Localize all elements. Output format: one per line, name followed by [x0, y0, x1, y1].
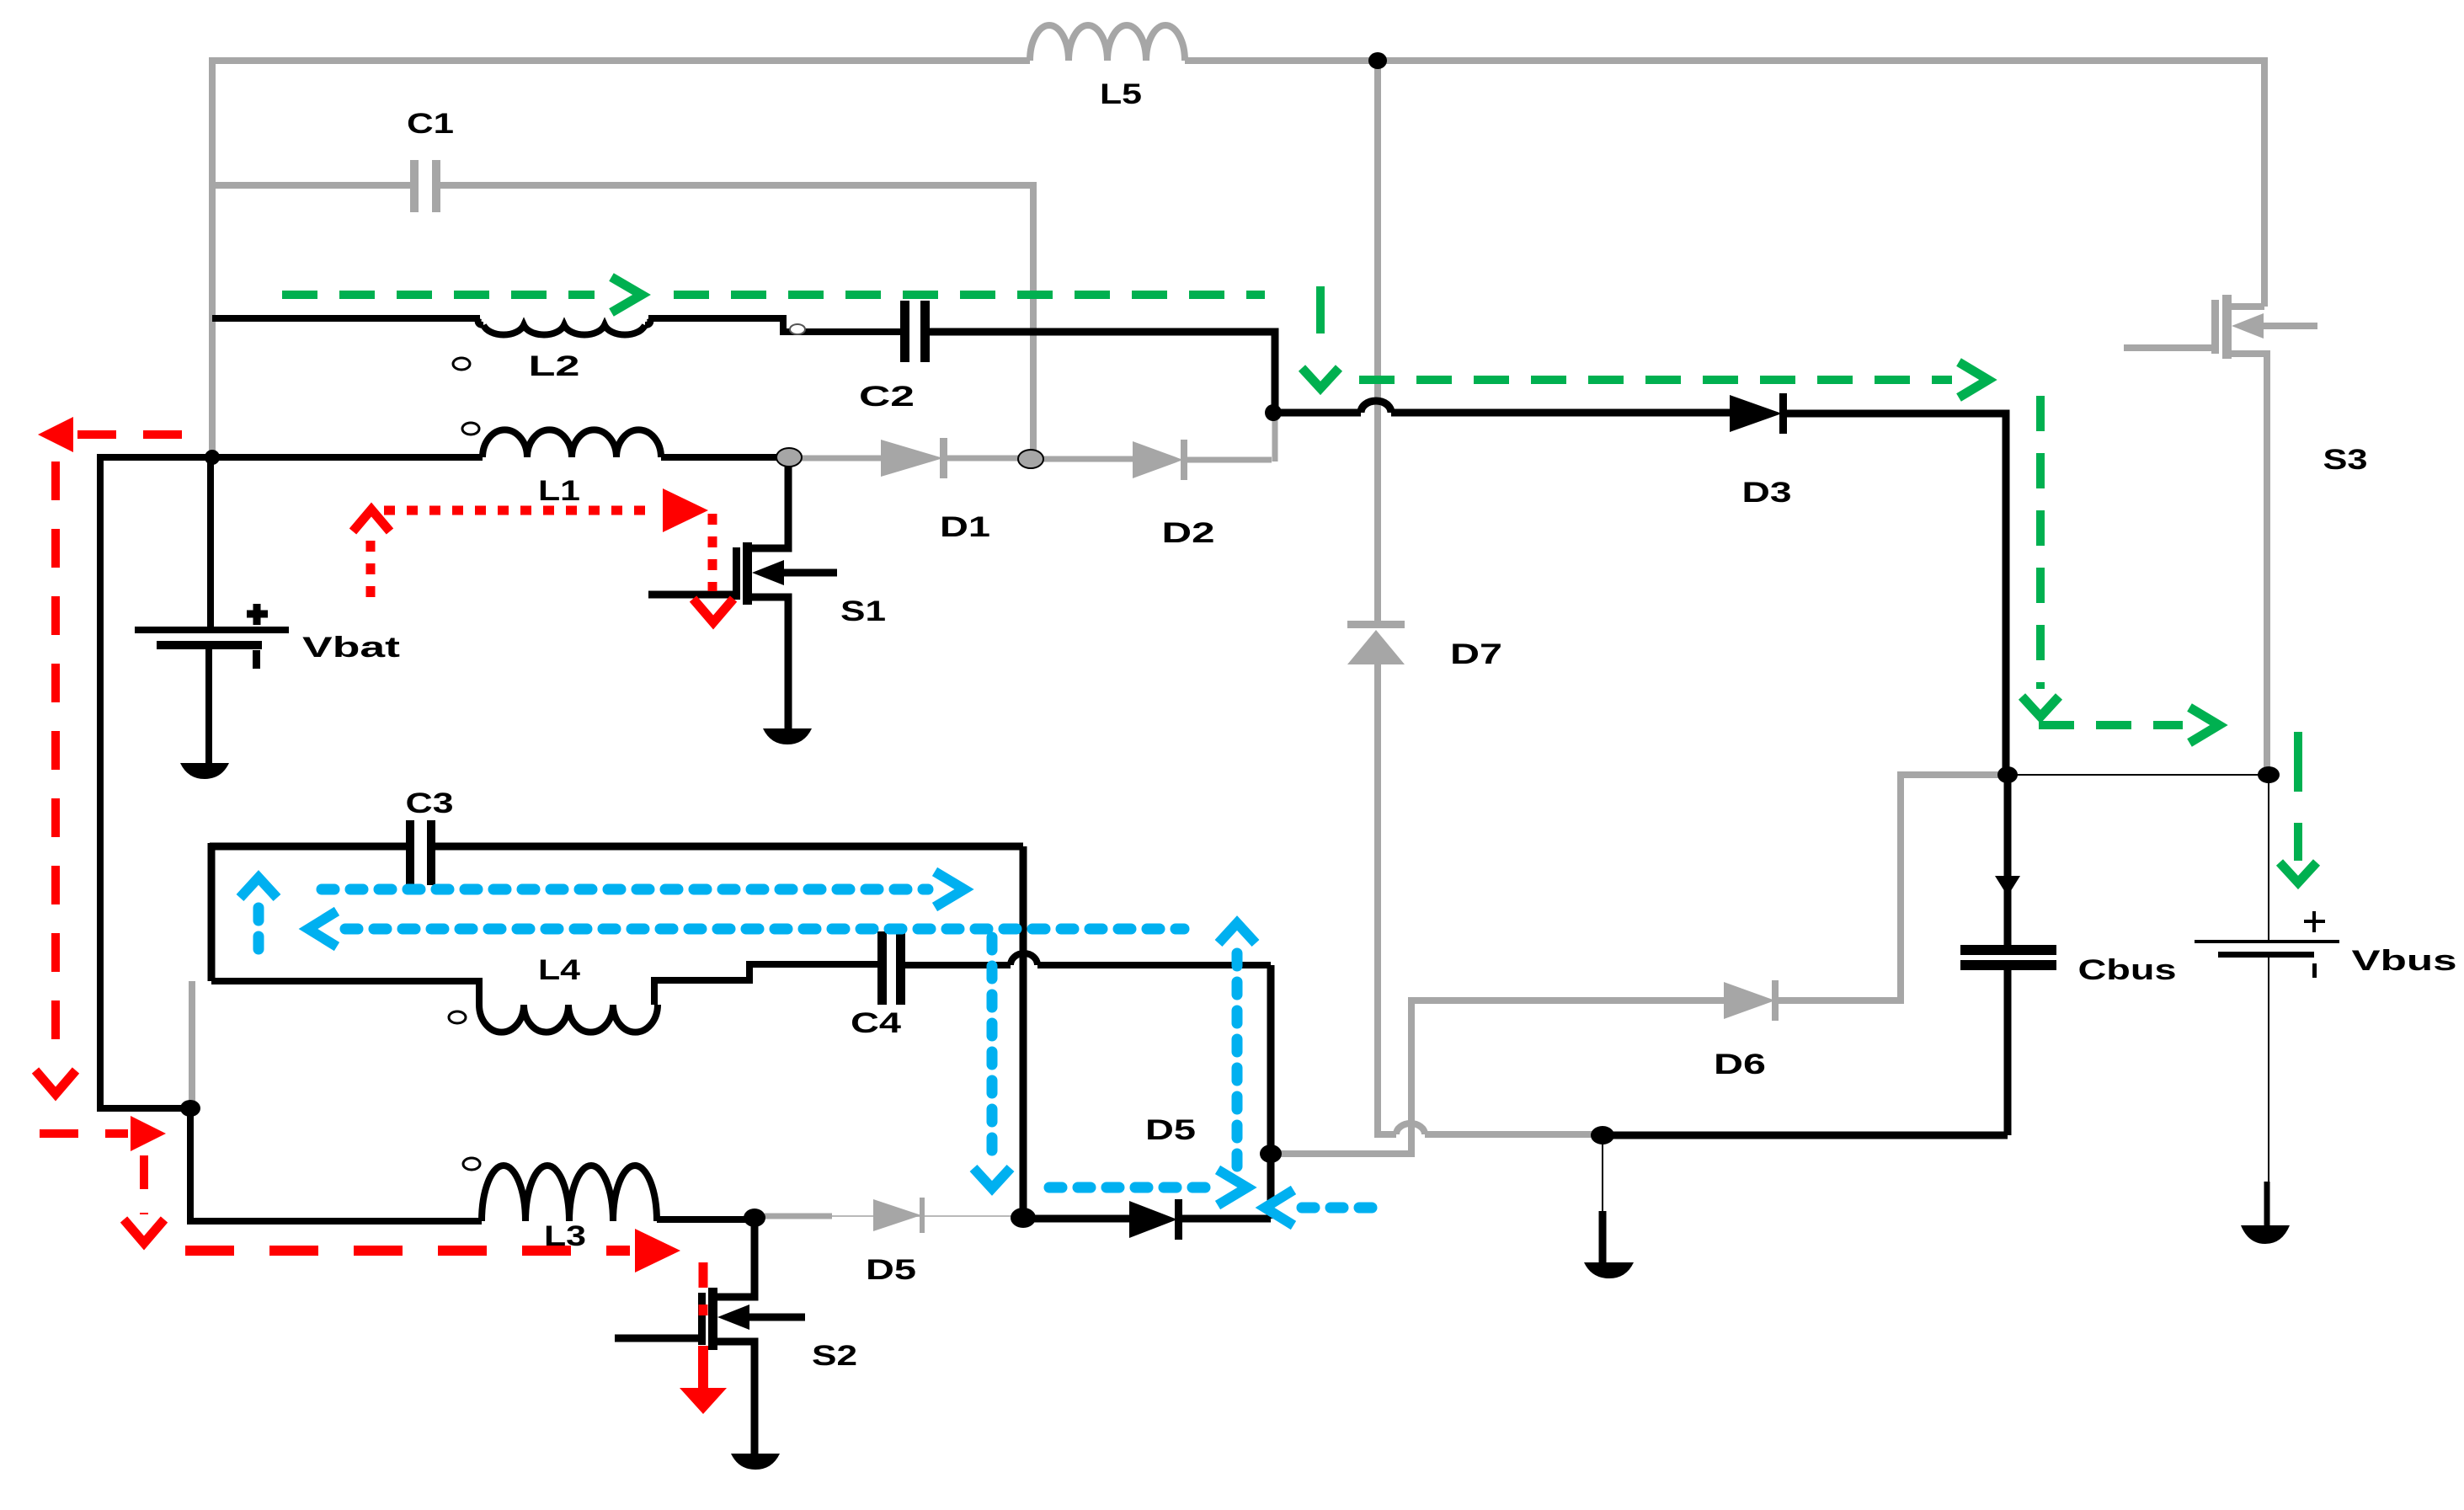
svg-text:S3: S3: [2323, 444, 2368, 476]
node dot D5 cell bottom left: [1011, 1208, 1036, 1228]
svg-text:D1: D1: [940, 511, 990, 543]
wire C3 loop top right: [435, 843, 1023, 851]
svg-text:D2: D2: [1162, 517, 1215, 549]
phase dot L1: [462, 423, 479, 435]
red chevron down into S1: [693, 599, 733, 622]
transistor S3 drain lead: [2227, 303, 2264, 310]
blue dotted vertical inside D5 cell right: [1232, 953, 1243, 1179]
transistor S1 gate bar: [733, 547, 740, 600]
wire battery stem: [207, 457, 214, 627]
wire Cbus bottom: [2004, 970, 2012, 1135]
blue chevron up at C3 loop left: [240, 878, 277, 898]
green path row1 continued: [674, 291, 1265, 299]
inductor L3: [482, 1166, 657, 1221]
red chevron up at L1: [353, 510, 390, 531]
transistor S1 channel bar: [743, 542, 752, 605]
battery Vbus plus sign: [2304, 911, 2325, 932]
node dot top L5-D7: [1368, 52, 1387, 69]
red dotted horizontal under L1: [384, 506, 657, 515]
ground mid (below D6 row): [1584, 1262, 1634, 1278]
ground below Vbat: [180, 763, 229, 779]
wire Cbus top from node: [2004, 773, 2012, 947]
red dotted vertical below chevron: [366, 541, 376, 603]
wire thin gray D5 row: [832, 1215, 1014, 1217]
wire L4 to C4 with step: [654, 964, 877, 1005]
inductor L4: [479, 1005, 658, 1032]
wire thin Vbus stem: [2268, 775, 2269, 941]
diode D1: [881, 440, 943, 477]
blue dotted row2 leftward: [345, 924, 1184, 935]
red arrowhead right at L1: [663, 488, 708, 532]
battery Vbat plates: [135, 627, 289, 633]
phase dot L3: [463, 1158, 480, 1170]
wire gray D2 to C2 corner node: [1187, 414, 1275, 462]
diode D3: [1730, 395, 1782, 432]
transistor S3 gate bar: [2211, 300, 2219, 354]
red arrow top-left pointing left: [77, 430, 192, 439]
capacitor C3: [406, 820, 414, 885]
blue dotted stub right of that arrow: [1302, 1203, 1379, 1214]
wire gray stub right of L3 node: [765, 1214, 832, 1219]
wire gray D7 branch upper: [1374, 66, 1381, 624]
wire gray node to D2: [1042, 456, 1133, 462]
node dot D5 cell right (to D6): [1260, 1145, 1282, 1163]
wire left black rail: [100, 457, 212, 1108]
ground below S1: [763, 728, 812, 744]
wire L2 branch from left rail: [212, 315, 480, 322]
red dashed left vertical: [51, 462, 60, 1063]
transistor S1 bulk arrow: [781, 569, 837, 577]
diode D5 black: [1129, 1201, 1177, 1238]
wire gray C1 row left: [212, 182, 410, 189]
blue dotted vertical inside D5 cell left: [987, 937, 998, 1161]
wire gray left vertical rail: [209, 64, 216, 457]
blue dotted bottom row in D5 cell: [1049, 1182, 1211, 1193]
red arrow small pointing right: [40, 1129, 128, 1138]
wire gray top rail right and drop to S3: [1185, 61, 2264, 307]
node dot Cbus top: [1997, 766, 2018, 783]
green path row2 to D3: [1359, 376, 1952, 384]
transistor S2 source lead: [712, 1342, 755, 1456]
red chevron down left bottom: [35, 1070, 76, 1094]
wire gray top rail left: [209, 57, 1030, 64]
diode D6: [1724, 982, 1775, 1019]
svg-text:C1: C1: [407, 108, 454, 140]
wire gray C1 row right with drop to D1-D2 node: [440, 185, 1033, 455]
svg-text:D6: D6: [1714, 1048, 1766, 1080]
wire L1 to S1 drain node: [661, 454, 789, 461]
wire D3 row with hop over D7 line: [1275, 401, 1730, 413]
wire gray D6 branch from D5 node: [1276, 1000, 1724, 1154]
inductor L1: [483, 430, 661, 457]
svg-text:C3: C3: [406, 787, 454, 819]
svg-text:D3: D3: [1742, 477, 1792, 509]
green vertical path right of Cbus corner: [2036, 396, 2045, 689]
node ellipse S1 drain (gray): [776, 448, 802, 467]
inductor L2: [478, 318, 645, 335]
transistor S2 drain lead: [712, 1218, 755, 1297]
green vertical dash above Vbus: [2294, 732, 2302, 792]
wire battery to ground: [205, 649, 212, 763]
wire D5 cell right vertical: [1267, 965, 1275, 1219]
transistor S1 source lead: [747, 597, 788, 731]
wire Vbus to ground: [2268, 958, 2269, 1182]
green horizontal toward Vbus: [2039, 721, 2183, 729]
capacitor C4: [877, 931, 887, 1005]
wire L1 branch from battery node: [212, 454, 483, 461]
red dashes above S2: [699, 1262, 708, 1315]
blue chevron right in D5 cell: [1218, 1170, 1247, 1205]
green chevron down at turn: [1302, 368, 1339, 388]
red down arrow below S2: [698, 1346, 708, 1390]
small open ellipse before C2: [790, 324, 805, 334]
green down arrow at Vbus: [2294, 823, 2302, 861]
svg-text:L2: L2: [529, 350, 580, 382]
blue chevron right row1: [935, 872, 964, 907]
svg-text:D7: D7: [1450, 638, 1502, 670]
svg-text:L1: L1: [538, 475, 580, 507]
battery Vbat plus sign: [247, 604, 268, 625]
green chevron down: [2022, 696, 2059, 717]
wire gray S1 node to D1: [802, 456, 881, 462]
green arrowhead row1 mid: [611, 277, 642, 312]
svg-text:L3: L3: [544, 1220, 586, 1252]
current arrow on Cbus wire: [1995, 876, 2020, 896]
battery Vbat minus tick: [253, 650, 260, 669]
transistor S2 gate line: [615, 1335, 698, 1342]
capacitor C2: [900, 301, 909, 362]
phase dot L2: [453, 358, 470, 370]
green arrowhead toward Vbus: [2189, 707, 2219, 743]
svg-text:C2: C2: [859, 381, 915, 413]
green vertical dash at turn: [1316, 286, 1325, 333]
inductor L5: [1030, 25, 1185, 61]
svg-text:S2: S2: [812, 1340, 857, 1372]
diode D5 gray: [873, 1199, 921, 1231]
svg-text:Vbat: Vbat: [302, 632, 400, 664]
blue chevron left entering from D6 row: [1265, 1190, 1293, 1225]
transistor S3 channel bar: [2222, 295, 2232, 359]
wire gray D7 branch lower with hop: [1378, 661, 1598, 1134]
transistor S2 channel bar: [708, 1288, 717, 1350]
wire L4 row left: [211, 981, 479, 1005]
wire D5 cell left vertical: [1020, 846, 1027, 1218]
ground below Vbus: [2241, 1225, 2290, 1244]
node dot L3 right: [744, 1209, 765, 1227]
wire battery-minus node down to L3 row: [190, 1108, 482, 1221]
svg-text:C4: C4: [851, 1007, 901, 1039]
wire C3 loop top left: [210, 843, 406, 851]
transistor S3 bulk arrow: [2260, 323, 2317, 329]
wire thin stem mid ground: [1602, 1139, 1603, 1211]
wire L2 to C2 with step: [645, 318, 900, 332]
red chevron down at L3 row: [124, 1219, 164, 1243]
diode D2: [1133, 441, 1183, 478]
wire C2 to corner node: [930, 332, 1275, 413]
svg-text:D5: D5: [866, 1254, 916, 1286]
node dot Vbus top: [2258, 766, 2280, 783]
transistor S3 source lead down to Vbus node: [2227, 354, 2267, 771]
transistor S1 gate line: [648, 591, 733, 599]
red dashed arrow along L3: [185, 1246, 630, 1256]
transistor S1 drain lead: [747, 457, 788, 548]
svg-text:D5: D5: [1145, 1114, 1196, 1146]
wire L3 to S2 drain node: [657, 1216, 755, 1223]
wire gray D1 to node: [947, 456, 1031, 462]
transistor S2 gate bar: [698, 1293, 706, 1345]
wire D5 cell bottom right: [1182, 1215, 1271, 1223]
green path row1 over L2: [282, 291, 595, 299]
wire gray D6 to Cbus node: [1779, 775, 2004, 1000]
wire thin node row Cbus to Vbus: [2008, 774, 2269, 776]
svg-text:Vbus: Vbus: [2352, 945, 2457, 977]
svg-text:S1: S1: [840, 595, 886, 627]
node dot battery top: [205, 450, 220, 465]
ground below S2: [731, 1454, 780, 1470]
node dot mid ground row: [1591, 1126, 1614, 1145]
blue chevron left row2: [308, 911, 337, 947]
blue dotted row1 rightward: [322, 884, 928, 895]
battery Vbus plates: [2195, 940, 2339, 943]
red dashed vertical to L3 row: [140, 1155, 148, 1214]
blue chevron up right of C4: [1219, 923, 1256, 943]
capacitor Cbus: [1960, 945, 2056, 955]
svg-text:L5: L5: [1100, 78, 1142, 110]
wire gray from L4 corner down to battery-minus node: [189, 981, 195, 1108]
phase dot L4: [449, 1011, 466, 1023]
green arrowhead row2: [1959, 362, 1988, 398]
blue dotted vertical at C3 loop left: [253, 908, 264, 960]
battery Vbus minus tick: [2312, 963, 2317, 978]
transistor S2 bulk arrow: [747, 1314, 805, 1321]
svg-text:L4: L4: [538, 954, 580, 986]
wire C3 loop left vertical: [208, 843, 216, 981]
node dot battery minus junction: [180, 1100, 200, 1117]
capacitor C1: [410, 160, 419, 212]
diode D7: [1347, 621, 1405, 628]
node ellipse D1-D2 junction (gray): [1018, 450, 1043, 468]
wire D3 to Cbus node corner: [1787, 414, 2006, 771]
wire D5 cell bottom left: [1023, 1215, 1129, 1223]
wire bottom row Cbus to mid ground node: [1603, 1132, 2008, 1139]
red dotted vertical into S1: [708, 514, 717, 591]
svg-text:Cbus: Cbus: [2078, 954, 2177, 986]
node dot C2 corner: [1265, 404, 1282, 421]
transistor S3 gate line: [2124, 344, 2213, 351]
blue chevron down inside D5 cell: [973, 1168, 1011, 1188]
wire C4 row with hop over D5-cell left vertical: [905, 953, 1271, 965]
